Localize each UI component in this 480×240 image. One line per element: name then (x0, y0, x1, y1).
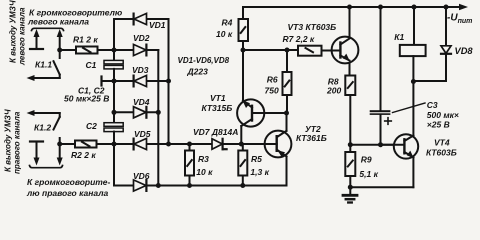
node: left bus / VD3 row (112, 79, 117, 84)
svg-text:R2 2 к: R2 2 к (71, 150, 96, 160)
diode VD1 (134, 13, 147, 24)
node: VT3 collector on rail (347, 5, 352, 10)
svg-text:КТ361Б: КТ361Б (296, 133, 327, 143)
top power rail (243, 4, 468, 10)
wire node A to R6/R7 (243, 49, 298, 51)
wire R2 to left bus (97, 143, 115, 145)
svg-text:К выходу УМЗЧ: К выходу УМЗЧ (9, 0, 18, 63)
node A: R4 bottom / VT1 emitter / R6-R7 wire (241, 48, 246, 53)
wire VD5 row (114, 143, 169, 145)
wire R1 row left (60, 49, 76, 51)
ground rail to VT4 emitter (350, 186, 413, 188)
svg-text:левого канала: левого канала (18, 7, 27, 66)
svg-text:R9: R9 (361, 155, 372, 165)
resistor R9 (345, 145, 355, 194)
svg-text:VT4: VT4 (434, 137, 450, 147)
wire VD3 row (102, 80, 169, 82)
node: R5 bottom (240, 183, 245, 188)
node B: VT1 base / R6 bottom / VT2 collector (284, 111, 289, 116)
svg-text:КТ315Б: КТ315Б (202, 103, 233, 113)
svg-text:R3: R3 (198, 154, 209, 164)
svg-text:500 мк×: 500 мк× (427, 110, 459, 120)
svg-text:К1.1: К1.1 (35, 59, 52, 69)
terminal arrow down: to right loudspeaker wire 1 (34, 142, 40, 166)
resistor R2 (75, 141, 97, 148)
svg-text:левого канала: левого канала (27, 17, 89, 27)
plus sign of C3 (385, 118, 392, 125)
outer right bus (VD1/VD3/VD5) (168, 19, 170, 144)
svg-text:VD5: VD5 (134, 129, 151, 139)
zener diode VD7 (212, 139, 241, 149)
resistor R6 (283, 50, 292, 113)
node: VD8 top on rail (444, 5, 449, 10)
wire VT1 collector vertical (240, 126, 242, 144)
transistor VT1 (KT315B, npn) (237, 99, 286, 126)
svg-text:VD1: VD1 (149, 20, 166, 30)
terminal arrow up: to left loudspeaker wire 2 (57, 29, 63, 58)
wire VD4 row (114, 111, 158, 113)
wire VD2 row (114, 49, 158, 51)
svg-text:КТ603Б: КТ603Б (426, 147, 457, 157)
capacitor C1 (104, 60, 123, 69)
node: VT1 collector / R5 top / VT2 base (239, 142, 244, 147)
svg-text:VD6: VD6 (133, 171, 150, 181)
svg-text:лю правого канала: лю правого канала (26, 188, 108, 198)
svg-text:VT1: VT1 (210, 93, 226, 103)
transistor VT3 (KT603B, npn) (332, 7, 359, 76)
svg-text:R5: R5 (251, 154, 262, 164)
node: inner bus / VD4 row (156, 110, 161, 115)
svg-text:С3: С3 (427, 100, 438, 110)
svg-text:VD1-VD6,VD8: VD1-VD6,VD8 (178, 56, 230, 65)
relay coil K1 (400, 7, 426, 82)
node: R3 top (187, 142, 192, 147)
svg-text:VD7 Д814А: VD7 Д814А (193, 127, 238, 137)
terminal tick at VD3 row left end (100, 77, 102, 86)
contact K1.2 fixed terminal T-bar (30, 140, 43, 142)
left bus bottom segment to bottom rail (113, 144, 115, 186)
capacitor C2 (104, 123, 123, 132)
svg-text:R4: R4 (222, 17, 233, 27)
terminal arrow down: to right loudspeaker wire 2 (57, 144, 63, 166)
contact K1.2 fixed stub (59, 138, 61, 144)
node: inner bus / bottom rail (156, 183, 161, 188)
left bus segment VD3 row to C2 (113, 81, 115, 123)
wire+arrow to UMZCH left channel output (27, 75, 60, 81)
svg-text:К1.2: К1.2 (34, 123, 51, 133)
node: C3 top on rail (378, 5, 383, 10)
svg-text:VD4: VD4 (133, 97, 150, 107)
svg-text:50 мк×25 В: 50 мк×25 В (64, 93, 109, 103)
svg-text:5,1 к: 5,1 к (359, 169, 378, 179)
wire VT4 base row (350, 144, 404, 146)
diode VD8 (413, 7, 451, 81)
svg-text:10 к: 10 к (196, 167, 213, 177)
svg-text:К1: К1 (394, 32, 404, 42)
capacitor C3 (370, 7, 391, 145)
wire+arrow to UMZCH right channel output (27, 110, 60, 116)
node: left bus / R2 / VD5 row (112, 142, 117, 147)
svg-text:1,3 к: 1,3 к (250, 167, 269, 177)
svg-text:VD3: VD3 (132, 65, 149, 75)
transistor VT2 (KT361B, pnp) (241, 113, 291, 186)
svg-text:Д223: Д223 (187, 67, 209, 77)
switch K1.2 lever (54, 113, 60, 130)
diode VD4 (134, 107, 147, 118)
diode VD5 (134, 138, 147, 149)
wire R1 to left bus (98, 49, 115, 51)
resistor R8 (345, 76, 355, 145)
node: junction speaker2 / R2 row (57, 142, 62, 147)
pointer line from C3 label (393, 103, 426, 113)
left bus segment C2 to R2 row (113, 132, 115, 144)
svg-text:R7 2,2 к: R7 2,2 к (283, 34, 315, 44)
resistor R5 (238, 144, 247, 186)
switch K1.1 lever (54, 61, 60, 78)
transistor VT4 (KT603B, npn) (381, 82, 419, 188)
svg-text:правого канала: правого канала (13, 111, 22, 174)
resistor R7 (298, 46, 332, 56)
zener-row wire from outer bus to R3 node (169, 143, 213, 145)
node: C3 bottom on VT4 base row (378, 142, 383, 147)
svg-text:К громкоговорите-: К громкоговорите- (27, 177, 110, 187)
node: left bus / VD4 row (112, 110, 117, 115)
node: K1 bottom / VD8 bottom / VT4 collector (411, 79, 416, 84)
resistor R3 (185, 144, 194, 186)
svg-text:VD8: VD8 (455, 46, 474, 56)
ground symbol (343, 195, 357, 202)
node: R3 bottom (187, 183, 192, 188)
node: junction speaker2/R1 row (57, 48, 62, 53)
node: R8 bottom / R9 top / VT4 base row (348, 142, 353, 147)
svg-text:С2: С2 (86, 121, 97, 131)
svg-text:10 к: 10 к (216, 29, 233, 39)
terminal arrow up: to left loudspeaker wire 1 (34, 29, 40, 49)
diode VD2 (134, 44, 147, 55)
svg-text:С1: С1 (86, 60, 97, 70)
node: left bus / R1 / C1 / VD2 (112, 48, 117, 53)
inner right bus (VD2/VD4 cathodes to bottom rail) (157, 50, 159, 186)
svg-text:R1 2 к: R1 2 к (73, 35, 98, 45)
svg-text:R6: R6 (267, 75, 278, 85)
svg-text:VT3 КТ603Б: VT3 КТ603Б (288, 22, 337, 32)
node: outer bus / VD5-zener row (166, 142, 171, 147)
svg-text:×25 В: ×25 В (427, 119, 450, 129)
wire R2 row left (60, 143, 75, 145)
wire VT1 emitter vertical (242, 50, 244, 101)
svg-text:VD2: VD2 (133, 33, 150, 43)
diode VD6 (134, 180, 147, 191)
left bus segment C1 to VD3 row (113, 69, 115, 81)
svg-text:200: 200 (326, 85, 341, 95)
node: R9 bottom / ground rail (348, 185, 353, 190)
node: outer bus / VD3 row (166, 79, 171, 84)
node: K1 top on rail (412, 5, 417, 10)
bracket under right speaker arrows (30, 166, 63, 168)
svg-text:К выходу УМЗЧ: К выходу УМЗЧ (4, 109, 13, 172)
bottom rail (left section) (114, 185, 286, 187)
left bus top segment + VD1 row (114, 19, 169, 60)
resistor R1 (76, 47, 98, 54)
bracket over left speaker arrows (32, 28, 64, 30)
resistor R4 (239, 7, 249, 50)
diode VD3 (134, 75, 147, 86)
svg-text:750: 750 (265, 85, 279, 95)
contact K1.1 fixed terminal T-bar (30, 48, 43, 50)
node: R6 top (285, 48, 290, 53)
